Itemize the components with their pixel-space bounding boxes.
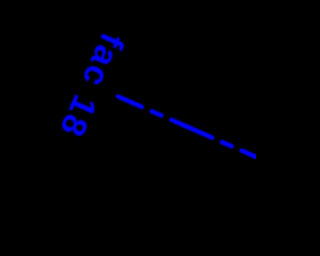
wire: blue dash-dot trend line (118, 97, 262, 160)
